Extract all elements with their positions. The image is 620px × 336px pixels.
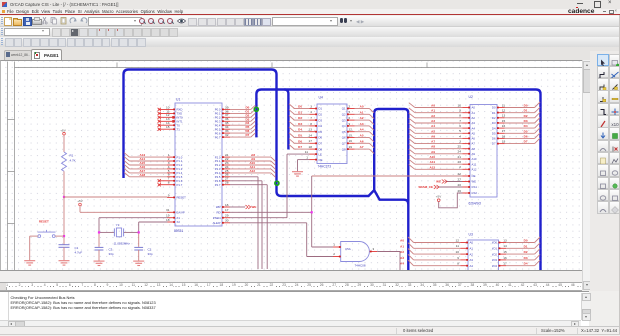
svg-text:WE: WE — [252, 205, 257, 209]
svg-text:10: 10 — [456, 250, 460, 254]
status bar — [0, 326, 620, 336]
svg-text:10: 10 — [458, 103, 462, 107]
power +5V (R1 pull-up) — [60, 128, 65, 135]
svg-text:9: 9 — [349, 121, 351, 125]
wire C2 to ground — [138, 250, 140, 261]
svg-text:A4: A4 — [400, 261, 404, 265]
svg-text:Q5: Q5 — [342, 129, 346, 133]
svg-text:D6: D6 — [319, 135, 323, 139]
ground under C2 — [133, 261, 144, 265]
U4 Q1-Q8 output pins with nets A0-A7 into A bus — [342, 104, 374, 153]
svg-text:A3: A3 — [360, 121, 364, 125]
U1 pins 16,17,29,30 WR RD PSEN ALE/P — [213, 202, 230, 224]
svg-text:Q2: Q2 — [342, 112, 346, 116]
svg-text:1: 1 — [306, 155, 308, 159]
ground under C3 — [94, 261, 105, 265]
svg-text:A4: A4 — [472, 126, 476, 130]
op U1 microcontroller 89S51 — [174, 97, 222, 233]
svg-text:I/O3: I/O3 — [492, 258, 498, 262]
window right edge — [619, 15, 620, 335]
svg-text:A2: A2 — [400, 250, 404, 254]
sram U2 6264/SO — [469, 95, 498, 206]
U5A pin 2 — [333, 252, 341, 257]
svg-text:20: 20 — [458, 182, 462, 186]
svg-text:P2.7: P2.7 — [215, 182, 221, 186]
latch U4 74HC373 — [317, 95, 347, 168]
svg-text:4.7K: 4.7K — [70, 158, 76, 162]
svg-text:4: 4 — [310, 110, 312, 114]
svg-text:15: 15 — [503, 250, 507, 254]
svg-text:2: 2 — [459, 165, 461, 169]
svg-text:A8: A8 — [472, 146, 476, 150]
svg-text:9: 9 — [457, 255, 459, 259]
net SRAM_CE off-page connector at U2 — [418, 185, 462, 189]
node crystal left junction — [98, 231, 100, 233]
svg-text:9: 9 — [168, 193, 170, 197]
wire RESET node to U1 pin 9 — [64, 196, 168, 198]
svg-text:A7: A7 — [360, 145, 364, 149]
wire PSEN (U1 pin29) to U4 LE — [230, 154, 310, 218]
bus: data bus D (U1 P0 to U4/U2/U3) — [256, 89, 540, 271]
session log panel — [0, 291, 589, 327]
svg-text:5: 5 — [349, 110, 351, 114]
svg-text:RD: RD — [216, 210, 220, 214]
svg-text:22: 22 — [458, 171, 462, 175]
resistor R1 4.7K — [62, 152, 76, 171]
svg-text:13: 13 — [309, 127, 313, 131]
svg-text:D2: D2 — [319, 112, 323, 116]
capacitor C2 33p — [134, 233, 153, 255]
svg-text:+5V: +5V — [436, 194, 441, 198]
svg-text:A3: A3 — [470, 258, 474, 262]
svg-text:A1: A1 — [360, 110, 364, 114]
svg-text:D6: D6 — [492, 136, 496, 140]
wire switch right to C1 node — [55, 235, 64, 237]
svg-text:D7: D7 — [319, 141, 323, 145]
wire +5V to U1 EA/VP — [80, 205, 168, 212]
U2 D0-D7 data pins with nets D0-D7 into D bus — [492, 102, 540, 146]
svg-text:D1: D1 — [319, 106, 323, 110]
svg-text:D1: D1 — [492, 110, 496, 114]
svg-text:19: 19 — [502, 139, 506, 143]
right tool palette — [590, 51, 620, 291]
svg-text:SRAM_CE: SRAM_CE — [418, 185, 433, 189]
svg-text:EA/VP: EA/VP — [177, 210, 185, 214]
svg-text:A5: A5 — [472, 131, 476, 135]
svg-text:23: 23 — [458, 160, 462, 164]
svg-text:Q3: Q3 — [342, 118, 346, 122]
svg-text:11.0592MHz: 11.0592MHz — [114, 241, 131, 245]
svg-text:33p: 33p — [109, 251, 114, 255]
node RESET junction — [63, 195, 65, 197]
svg-text:D4: D4 — [298, 127, 302, 131]
sram U3 (bottom, partially visible) — [468, 232, 499, 272]
svg-text:A0: A0 — [472, 105, 476, 109]
svg-text:9: 9 — [459, 108, 461, 112]
wire U5A output down — [377, 251, 400, 271]
wire +5V to R1 — [63, 135, 65, 152]
svg-text:PSEN: PSEN — [213, 215, 221, 219]
svg-text:6: 6 — [349, 116, 351, 120]
schematic canvas — [0, 60, 583, 272]
net WE off-page connector at U2 — [436, 179, 462, 183]
svg-text:19: 19 — [349, 145, 353, 149]
svg-text:D3: D3 — [524, 255, 528, 259]
U1 pins 21-28 P2.0-P2.7, nets A8-A12 into A bus — [215, 153, 276, 187]
svg-text:8: 8 — [459, 113, 461, 117]
svg-text:A1: A1 — [431, 108, 435, 112]
svg-text:A2: A2 — [472, 116, 476, 120]
svg-text:12: 12 — [502, 108, 506, 112]
wire R1 to RESET node — [63, 171, 65, 197]
U1 pins 10-15 RXD TXD INT0 INT1 T0 T1 (no-connect) — [158, 105, 183, 131]
svg-text:7: 7 — [459, 118, 461, 122]
wire C1 to ground — [63, 247, 65, 260]
svg-text:I/O1: I/O1 — [492, 246, 498, 250]
wires P2.5 P2.6 P2.7 down to lower edge — [230, 176, 267, 268]
red cadence separator line — [0, 14, 620, 15]
page border left edge — [8, 61, 15, 271]
svg-text:Q1: Q1 — [342, 106, 346, 110]
svg-text:A12: A12 — [429, 165, 435, 169]
svg-text:A2: A2 — [360, 116, 364, 120]
svg-text:25: 25 — [458, 144, 462, 148]
svg-text:A3: A3 — [472, 121, 476, 125]
svg-text:A12: A12 — [249, 168, 255, 172]
svg-text:18: 18 — [502, 134, 506, 138]
svg-text:+5V: +5V — [77, 198, 82, 202]
svg-text:A6: A6 — [360, 139, 364, 143]
svg-text:D0: D0 — [524, 103, 528, 107]
svg-text:3: 3 — [459, 139, 461, 143]
svg-text:A5: A5 — [360, 133, 364, 137]
wire U1 X1 to crystal — [99, 217, 168, 232]
U5A pin 1 — [333, 242, 341, 247]
svg-text:X2: X2 — [177, 220, 181, 224]
svg-text:Q4: Q4 — [342, 124, 346, 128]
svg-text:U5A: U5A — [345, 246, 351, 250]
svg-text:D0: D0 — [298, 104, 302, 108]
U4 D1-D8 input pins with nets D0-D7 from D branch bus — [289, 103, 323, 150]
svg-text:11: 11 — [305, 150, 308, 154]
svg-text:8: 8 — [457, 261, 459, 265]
U1 pins 39-32 P0.0-P0.7, nets D0-D7 into D bus — [215, 105, 256, 139]
svg-text:A12: A12 — [472, 167, 477, 171]
wire ALE (U1 pin30) to U5A pin 2 — [230, 222, 334, 256]
svg-text:I/O0: I/O0 — [492, 240, 498, 244]
svg-text:16: 16 — [502, 124, 506, 128]
svg-text:D5: D5 — [298, 133, 302, 137]
svg-text:D4: D4 — [319, 124, 323, 128]
svg-text:A7: A7 — [472, 141, 476, 145]
svg-text:4: 4 — [459, 134, 461, 138]
svg-text:R1: R1 — [70, 153, 74, 157]
svg-text:A10: A10 — [429, 155, 435, 159]
svg-text:89S51: 89S51 — [174, 229, 183, 233]
wire C3 to ground — [98, 250, 100, 261]
menu bar — [0, 9, 620, 14]
svg-text:D7: D7 — [245, 133, 249, 137]
title bar — [0, 0, 620, 10]
svg-text:8: 8 — [310, 121, 312, 125]
svg-text:16: 16 — [349, 139, 353, 143]
svg-text:30: 30 — [225, 218, 229, 222]
svg-text:A5: A5 — [431, 129, 435, 133]
svg-text:A2: A2 — [431, 113, 435, 117]
wire junction down to U5A pin 1 — [312, 212, 333, 247]
svg-text:31: 31 — [166, 208, 170, 212]
svg-text:A6: A6 — [431, 134, 435, 138]
toolbar row 2 — [0, 27, 620, 38]
svg-text:15: 15 — [349, 133, 353, 137]
svg-text:A4: A4 — [470, 263, 474, 267]
svg-text:CS1: CS1 — [472, 185, 478, 189]
U1 pins 1-8 P1.0-P1.7, nets A13-A18 to left bus — [124, 152, 182, 186]
svg-text:32: 32 — [225, 133, 229, 137]
node crystal right junction — [138, 231, 140, 233]
svg-text:D3: D3 — [319, 118, 323, 122]
svg-text:D0: D0 — [524, 238, 528, 242]
svg-text:D3: D3 — [298, 121, 302, 125]
svg-text:12: 12 — [349, 127, 353, 131]
svg-text:8: 8 — [168, 180, 170, 184]
wire RESET node down to C1 — [63, 197, 65, 245]
capacitor C3 33p — [95, 233, 114, 255]
svg-text:D8: D8 — [319, 147, 323, 151]
svg-text:33p: 33p — [148, 251, 153, 255]
svg-text:A0: A0 — [360, 104, 364, 108]
svg-text:U3: U3 — [469, 232, 473, 236]
svg-text:D1: D1 — [298, 110, 302, 114]
wire +5V to U2 CS2 — [439, 193, 463, 208]
and-gate U5A 74HC08 — [341, 241, 370, 267]
svg-text:17: 17 — [225, 208, 229, 212]
wire RD (U1 pin17) to junction — [230, 211, 312, 213]
svg-text:A3: A3 — [431, 119, 435, 123]
wire crystal to X2 — [124, 222, 168, 232]
svg-text:17: 17 — [309, 139, 313, 143]
schematic v-scrollbar — [582, 60, 591, 291]
svg-text:12: 12 — [456, 238, 460, 242]
svg-text:D5: D5 — [492, 131, 496, 135]
svg-text:I/O2: I/O2 — [492, 252, 498, 256]
wire switch left to ground — [30, 236, 38, 260]
window bottom edge — [0, 334, 620, 335]
svg-text:24: 24 — [458, 149, 462, 153]
svg-text:A3: A3 — [400, 255, 404, 259]
svg-text:27: 27 — [458, 177, 462, 181]
ground under switch — [24, 260, 35, 264]
svg-text:21: 21 — [458, 154, 462, 158]
svg-text:D1: D1 — [524, 244, 528, 248]
svg-text:LE: LE — [319, 152, 323, 156]
svg-text:WR: WR — [216, 205, 221, 209]
svg-text:3: 3 — [310, 104, 312, 108]
svg-text:D7: D7 — [298, 145, 302, 149]
ground below U4 OE — [292, 171, 303, 175]
svg-text:D3: D3 — [492, 121, 496, 125]
node RD/OE/U5A junction — [311, 211, 313, 213]
svg-text:D5: D5 — [524, 129, 528, 133]
U5A pin 3 output — [370, 247, 377, 252]
svg-text:15: 15 — [166, 125, 170, 129]
svg-text:D2: D2 — [524, 250, 528, 254]
svg-text:A10: A10 — [472, 157, 477, 161]
svg-text:RESET: RESET — [177, 195, 187, 199]
U3 A0-A4 pins with nets from A bus — [400, 236, 473, 267]
svg-text:1: 1 — [333, 242, 335, 246]
svg-text:A1: A1 — [472, 110, 476, 114]
crystal Y1 11.0592MHz — [114, 222, 131, 245]
bus: address bus A (left of U1) — [124, 69, 409, 271]
node switch junction — [63, 235, 65, 237]
toolbar row 3 — [0, 37, 620, 48]
svg-text:11: 11 — [502, 103, 505, 107]
net label RESET — [39, 219, 49, 223]
toolbar row 1 — [0, 16, 620, 28]
svg-text:D2: D2 — [492, 116, 496, 120]
svg-text:P1.7: P1.7 — [177, 182, 183, 186]
svg-text:T1: T1 — [177, 127, 181, 131]
svg-text:D3: D3 — [524, 119, 528, 123]
canvas bottom gray band — [0, 270, 582, 283]
svg-text:D7: D7 — [492, 141, 496, 145]
svg-text:6264/SO: 6264/SO — [469, 201, 482, 205]
svg-text:D0: D0 — [492, 105, 496, 109]
svg-text:CS2: CS2 — [472, 191, 478, 195]
svg-text:A2: A2 — [470, 252, 474, 256]
svg-text:D7: D7 — [524, 139, 528, 143]
svg-text:5: 5 — [459, 129, 461, 133]
svg-text:A0: A0 — [431, 103, 435, 107]
svg-text:29: 29 — [225, 213, 229, 217]
wire U2 OE long run to RD junction — [312, 176, 463, 212]
svg-text:13: 13 — [503, 238, 507, 242]
svg-text:U2: U2 — [469, 95, 473, 99]
node green bus junction (A bus) — [275, 181, 279, 185]
svg-text:D2: D2 — [524, 113, 528, 117]
document tabs — [0, 47, 620, 60]
svg-text:Q6: Q6 — [342, 135, 346, 139]
svg-text:74HC08: 74HC08 — [355, 263, 366, 267]
svg-text:D2: D2 — [298, 116, 302, 120]
svg-text:A9: A9 — [472, 152, 476, 156]
svg-text:D4: D4 — [492, 126, 496, 130]
svg-text:A4: A4 — [431, 124, 435, 128]
svg-text:6: 6 — [459, 124, 461, 128]
svg-text:4.7uF: 4.7uF — [75, 250, 83, 254]
svg-text:U4: U4 — [319, 95, 323, 99]
svg-text:15: 15 — [502, 118, 506, 122]
svg-text:A9: A9 — [431, 149, 435, 153]
svg-text:x10: x10 — [611, 122, 619, 127]
U4 pin 11 LE and pin 1 OE — [305, 150, 323, 162]
svg-text:OE: OE — [472, 174, 476, 178]
U2 control pins 22 OE, 27 WE, 20 CS1, 26 CS2 — [458, 171, 478, 194]
svg-text:D4: D4 — [524, 261, 528, 265]
svg-text:D1: D1 — [524, 108, 528, 112]
svg-text:13: 13 — [502, 113, 506, 117]
svg-text:11: 11 — [456, 244, 459, 248]
ruler strip — [0, 282, 582, 292]
svg-text:A8: A8 — [431, 144, 435, 148]
svg-text:P0.7: P0.7 — [215, 135, 221, 139]
power +5V (EA/VP) — [77, 198, 82, 205]
svg-text:D4: D4 — [524, 124, 528, 128]
svg-text:C1: C1 — [75, 246, 79, 250]
svg-text:74HC373: 74HC373 — [318, 164, 332, 168]
svg-text:18: 18 — [166, 217, 170, 221]
svg-text:A0: A0 — [400, 238, 404, 242]
svg-text:WE: WE — [436, 179, 441, 183]
svg-text:17: 17 — [503, 261, 507, 265]
page border top edge — [15, 62, 583, 67]
svg-text:A11: A11 — [472, 162, 477, 166]
svg-text:2: 2 — [349, 104, 351, 108]
svg-text:U1: U1 — [176, 97, 180, 101]
svg-text:A7: A7 — [431, 139, 435, 143]
svg-text:D5: D5 — [319, 129, 323, 133]
svg-text:A6: A6 — [472, 136, 476, 140]
svg-text:Q8: Q8 — [342, 147, 346, 151]
+5V symbol at U2 CS2 — [436, 194, 441, 201]
capacitor C1 4.7uF — [59, 244, 83, 254]
svg-text:A1: A1 — [470, 246, 474, 250]
svg-text:+5V: +5V — [60, 128, 65, 132]
svg-text:A4: A4 — [360, 127, 364, 131]
switch SW RESET — [38, 229, 56, 237]
svg-text:7: 7 — [310, 116, 312, 120]
ground under C1 — [59, 260, 70, 264]
svg-text:A18: A18 — [139, 172, 145, 176]
svg-text:RESET: RESET — [39, 219, 49, 223]
U1 pin 9 RESET — [167, 193, 186, 199]
svg-text:28: 28 — [225, 180, 229, 184]
svg-text:D6: D6 — [524, 134, 528, 138]
svg-text:16: 16 — [225, 202, 229, 206]
svg-text:26: 26 — [458, 188, 462, 192]
U3 I/O0-I/O4 pins with nets D0-D4 into D bus — [492, 237, 540, 268]
svg-text:14: 14 — [503, 244, 507, 248]
svg-text:17: 17 — [502, 129, 506, 133]
svg-text:ALE/P: ALE/P — [213, 221, 221, 225]
svg-text:OE: OE — [319, 157, 323, 161]
svg-text:18: 18 — [309, 145, 313, 149]
bus: lower A trunk segment to U3 — [374, 190, 408, 204]
svg-text:A11: A11 — [430, 160, 436, 164]
svg-text:I/O4: I/O4 — [492, 263, 498, 267]
U2 A0-A12 address pins with nets from A bus — [409, 102, 477, 171]
svg-text:A0: A0 — [470, 240, 474, 244]
svg-text:14: 14 — [309, 133, 313, 137]
svg-text:WE: WE — [472, 179, 477, 183]
U1 pins 31,19,18 EA/VP X1 X2 — [166, 208, 185, 224]
svg-text:Y1: Y1 — [116, 222, 120, 226]
svg-text:16: 16 — [503, 255, 507, 259]
svg-text:Q7: Q7 — [342, 141, 346, 145]
svg-text:2: 2 — [333, 252, 335, 256]
svg-text:D6: D6 — [298, 139, 302, 143]
wire U4 OE to ground — [298, 159, 310, 171]
net WE off-page connector at U1 pin16 — [230, 205, 257, 209]
node green bus junction (D bus) — [254, 107, 258, 111]
bus: D branch down to U4 — [285, 89, 289, 149]
svg-text:A1: A1 — [400, 244, 404, 248]
